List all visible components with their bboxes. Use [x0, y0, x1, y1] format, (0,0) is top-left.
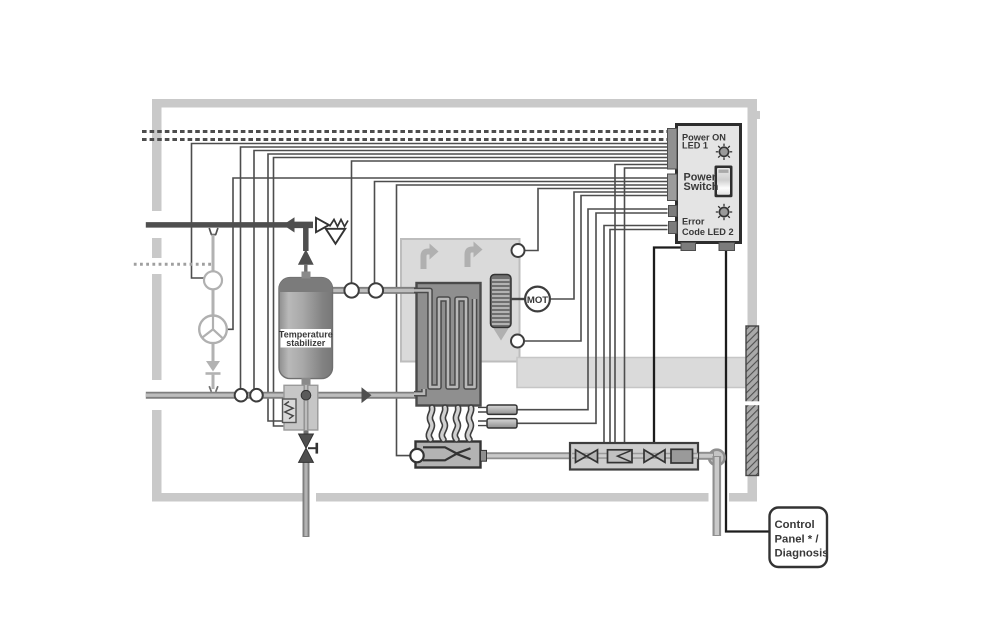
svg-text:MOT: MOT [527, 295, 548, 306]
casing right edge [748, 99, 758, 327]
svg-text:Diagnosis: Diagnosis [775, 548, 829, 560]
wire gas valve aux [610, 230, 668, 444]
wire exhaust over temp switch [525, 189, 668, 251]
circulation line temp sensor circle [204, 271, 222, 289]
hot pipe flow arrow [283, 217, 295, 232]
burner flames [429, 408, 471, 440]
wire gas valve solenoid 2 [625, 168, 668, 443]
wire anti-freeze element 2 [274, 158, 668, 427]
casing top edge [152, 99, 757, 108]
error code LED 2 [716, 204, 732, 220]
flue fan motor MOT [525, 287, 550, 312]
flame rectification electrode rod 1 [478, 405, 517, 414]
flame rectification electrode rod 2 [478, 419, 517, 428]
svg-text:Code LED 2: Code LED 2 [682, 227, 734, 237]
wire circulation line temp sensor [192, 144, 668, 279]
circulation line assembly [134, 235, 221, 392]
connector tab 2 [668, 174, 678, 201]
pressure relief valve [316, 218, 348, 244]
anti freeze element [283, 399, 297, 423]
flow arrow up from tank [298, 249, 314, 265]
water outlet temp sensor circle [344, 283, 358, 297]
water drain lever [308, 447, 317, 449]
casing outline [152, 99, 760, 502]
gas valve unit [570, 443, 698, 470]
wire flue fan motor [549, 192, 668, 299]
safety valve 2 [644, 450, 655, 463]
wire anti-freeze element 1 [268, 154, 668, 421]
water over temp sensor circle [369, 283, 383, 297]
wire bundle to control unit [192, 144, 668, 456]
wire flame rectification electrode 2 [517, 213, 668, 423]
heat exchanger flow elbow arrow 1 [421, 244, 439, 270]
node at tank drain tee [301, 390, 311, 400]
heat exchanger serpentine [414, 290, 475, 387]
gas pipe burner to gas valve [483, 452, 572, 459]
burner over temp switch circle [410, 449, 423, 462]
wire water outlet temp sensor [352, 161, 668, 284]
fan axle [511, 298, 526, 300]
svg-text:Error: Error [682, 217, 705, 227]
wire burner over temp switch [397, 185, 668, 456]
filter [671, 449, 693, 463]
water inlet temp sensor circle [250, 389, 263, 402]
wire control unit to gas valve [654, 248, 688, 444]
water manifold under tank [284, 385, 318, 430]
wire water inlet temp sensor [254, 151, 668, 390]
connector tab 4 [669, 222, 678, 234]
exhaust plenum around heat exchanger [401, 239, 520, 362]
hot water pipe [146, 217, 314, 278]
+12V dashed supply line [142, 130, 668, 133]
exhaust pressure switch circle [511, 335, 524, 348]
circulation pump [199, 316, 227, 344]
svg-text:Panel * /: Panel * / [775, 533, 820, 545]
dotted circulation line [134, 263, 211, 266]
wire flame rectification electrode 1 [517, 209, 668, 410]
svg-text:Control: Control [775, 519, 815, 531]
Ground dashed line [142, 138, 668, 141]
casing left edge (with pipe gaps) [152, 99, 162, 211]
wire water over temp sensor [375, 182, 668, 284]
control panel / diagnosis box [770, 508, 829, 568]
heat exchanger flow elbow arrow 2 [465, 242, 483, 268]
safety valve 1 [576, 450, 587, 463]
temperature stabilizer label plate [281, 329, 332, 348]
connector tab 1 [668, 129, 678, 170]
flue fan wheel [491, 275, 527, 341]
burner [416, 442, 487, 468]
wire circulation pump [227, 178, 668, 329]
cold water pipe [146, 387, 418, 403]
temperature stabilizer tank [279, 272, 333, 387]
bottom connector tabs [681, 243, 696, 251]
connector tab 3 [669, 206, 678, 217]
control unit U1 [668, 125, 741, 251]
water drain valve [299, 434, 317, 462]
wire water flow sensor [241, 147, 668, 389]
svg-text:stabilizer: stabilizer [286, 338, 326, 348]
water drain pipe [304, 430, 309, 537]
access door step notch [752, 111, 760, 119]
power ON LED 1 [716, 144, 732, 160]
wire exhaust pressure switch [524, 196, 668, 342]
circulation vertical pipe [212, 235, 215, 389]
cold pipe flow arrow [362, 387, 372, 403]
wire control unit to control panel [726, 248, 770, 532]
cold pipe tap fitting [209, 386, 218, 392]
non-return valve [206, 361, 220, 372]
gas pipe valve to elbow and gas inlet [698, 450, 725, 536]
heat exchanger coil box [414, 283, 481, 406]
hot pipe tee [294, 222, 313, 229]
wire gas valve solenoid 1 [615, 165, 668, 444]
pipe tank to heat exchanger [331, 287, 418, 294]
flue duct wall (hatched) [745, 326, 761, 476]
modulator [608, 450, 633, 463]
svg-text:Switch: Switch [684, 181, 719, 193]
fan down arrow [494, 329, 509, 341]
power switch [715, 166, 733, 198]
circulation tap fitting on hot pipe [209, 228, 218, 235]
wire gas valve modulator [604, 226, 668, 444]
exhaust over temp switch circle [512, 244, 525, 257]
flue duct horizontal band [517, 358, 746, 388]
svg-text:LED 1: LED 1 [682, 141, 708, 151]
water flow sensor circle [235, 389, 248, 402]
casing bottom edge (with gaps for drain and gas pipes) [152, 493, 303, 502]
burner venturi [423, 447, 471, 460]
